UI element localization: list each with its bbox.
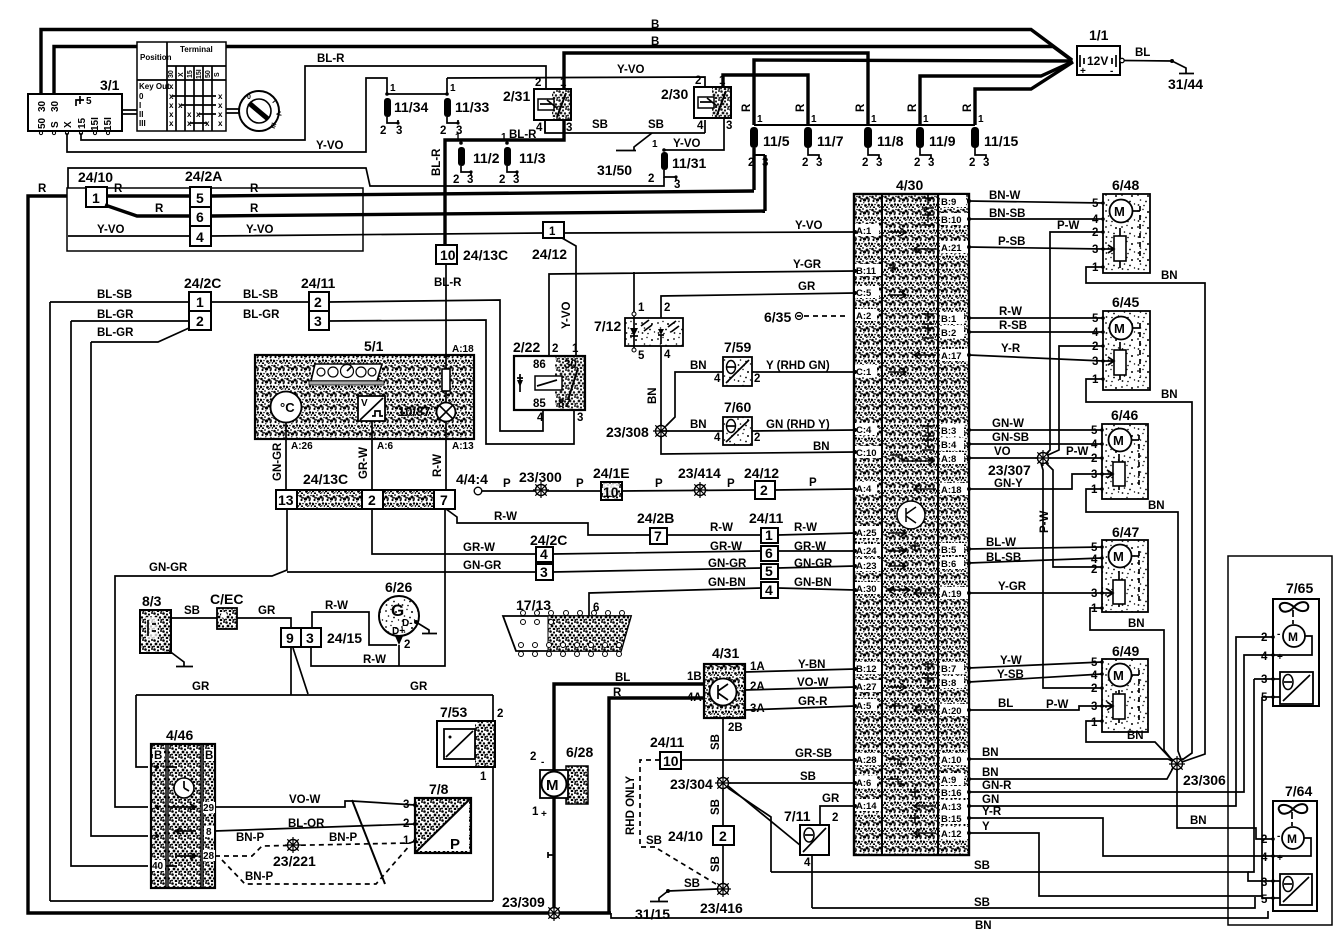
svg-text:VO-W: VO-W xyxy=(797,677,828,689)
svg-text:R: R xyxy=(38,183,47,195)
wire GR-SB 24/11-10 to strip A:28 xyxy=(681,759,855,761)
wire BL-GR row to relay 2/22 pin3 loop xyxy=(329,320,574,444)
svg-text:31/44: 31/44 xyxy=(1168,76,1203,92)
fuse 11/15 xyxy=(962,103,1018,169)
svg-text:M: M xyxy=(1113,433,1124,448)
fuse 11/33 xyxy=(440,83,489,137)
svg-text:23/416: 23/416 xyxy=(700,900,743,916)
svg-text:4: 4 xyxy=(1091,670,1098,682)
wire BN 7/12 pin4 to 23/308 xyxy=(660,346,662,425)
svg-text:2: 2 xyxy=(1261,632,1267,644)
ignition switch 3/1 xyxy=(28,77,122,135)
svg-text:P: P xyxy=(450,836,460,853)
connector 24/12 pin 1 xyxy=(532,222,567,262)
svg-text:15I: 15I xyxy=(103,117,114,131)
svg-text:M: M xyxy=(1113,549,1124,564)
svg-text:GN-GR: GN-GR xyxy=(794,558,833,570)
svg-text:6/45: 6/45 xyxy=(1112,294,1139,310)
svg-text:23/306: 23/306 xyxy=(1183,772,1226,788)
svg-text:I: I xyxy=(139,101,141,110)
wire GR 7/11 pin2 to strip A:14 xyxy=(820,806,855,825)
svg-text:x: x xyxy=(218,110,223,119)
svg-text:2: 2 xyxy=(1261,834,1267,846)
svg-text:GR: GR xyxy=(410,681,428,693)
wire GR-R 4/31 3A to strip A:5 xyxy=(745,706,855,710)
svg-text:4: 4 xyxy=(1261,852,1268,864)
wire relay 2/31 pin4 stub xyxy=(544,120,546,133)
svg-text:3: 3 xyxy=(674,179,680,191)
svg-text:1: 1 xyxy=(480,771,487,783)
svg-text:1/1: 1/1 xyxy=(1089,27,1109,43)
wire Y-VO 11/33 to relay 2/30 pin2 xyxy=(447,77,705,87)
wire SB 8/3 to C/EC xyxy=(171,617,217,619)
svg-text:85: 85 xyxy=(533,398,546,410)
svg-text:24/10: 24/10 xyxy=(78,169,113,185)
ground 31/15 xyxy=(635,889,670,922)
wire 7/65 pin5 down to 7/64 pin5 node xyxy=(1261,697,1263,896)
svg-text:1: 1 xyxy=(1092,374,1099,386)
RHD ONLY dashed box xyxy=(625,760,716,884)
svg-text:3: 3 xyxy=(306,630,314,646)
wire GN-W B:3 to 6/46 pin5 xyxy=(969,429,1102,431)
svg-text:0: 0 xyxy=(247,94,251,101)
svg-text:C:1: C:1 xyxy=(856,367,872,378)
svg-text:BN: BN xyxy=(982,767,999,779)
svg-text:BL-SB: BL-SB xyxy=(243,289,278,301)
svg-text:3: 3 xyxy=(1261,674,1267,686)
svg-text:2: 2 xyxy=(314,294,322,310)
svg-text:10: 10 xyxy=(440,247,456,263)
svg-text:3/1: 3/1 xyxy=(100,77,120,93)
svg-text:B:4: B:4 xyxy=(941,440,957,451)
svg-text:Y-VO: Y-VO xyxy=(795,220,823,232)
svg-text:30: 30 xyxy=(168,70,175,78)
svg-text:1: 1 xyxy=(501,132,507,143)
svg-text:3: 3 xyxy=(983,157,989,169)
svg-text:GR-W: GR-W xyxy=(463,542,495,554)
svg-text:V: V xyxy=(361,398,368,409)
wire R row2 to fuse 11/5 pin3 xyxy=(211,211,765,216)
svg-text:GR-R: GR-R xyxy=(798,696,828,708)
wire SB relay coils to ground xyxy=(545,120,705,133)
svg-text:2/31: 2/31 xyxy=(503,88,530,104)
svg-text:R-W: R-W xyxy=(432,454,444,477)
wire BN bottom row xyxy=(611,911,1268,918)
svg-text:R: R xyxy=(155,203,164,215)
svg-text:BL-GR: BL-GR xyxy=(97,327,134,339)
diode box 7/12 xyxy=(594,302,683,362)
svg-text:15: 15 xyxy=(77,117,88,129)
svg-text:11/3: 11/3 xyxy=(519,150,546,166)
svg-text:BL: BL xyxy=(1135,47,1150,59)
fuse 11/8 xyxy=(855,103,904,169)
svg-text:2: 2 xyxy=(368,492,376,508)
svg-text:B:8: B:8 xyxy=(941,678,956,689)
svg-text:R: R xyxy=(962,103,974,112)
svg-text:A:18: A:18 xyxy=(941,485,962,496)
wire fuse 11/5 feed to battery xyxy=(754,60,1072,125)
svg-text:°C: °C xyxy=(280,400,295,415)
wire 7/11 pin4 down to SB row xyxy=(811,855,813,908)
junction 23/416 xyxy=(700,881,743,916)
svg-text:SB: SB xyxy=(710,734,722,750)
svg-text:A:21: A:21 xyxy=(941,243,962,254)
svg-text:3: 3 xyxy=(467,174,473,186)
connector 24/11 pin 1 xyxy=(749,510,783,543)
svg-text:M: M xyxy=(1114,204,1125,219)
svg-text:GR-SB: GR-SB xyxy=(795,748,832,760)
svg-text:3: 3 xyxy=(396,125,402,137)
svg-text:3: 3 xyxy=(540,564,548,580)
svg-text:A:27: A:27 xyxy=(856,682,877,693)
connector 24/13C pin 10 xyxy=(436,245,508,264)
connector 24/15 pins 9 3 xyxy=(281,628,362,647)
wire GR-W 5/1 to 24/13C-2 xyxy=(371,439,373,490)
svg-text:Y: Y xyxy=(982,821,990,833)
svg-text:3: 3 xyxy=(726,120,732,132)
wire 7/12 pin1 to Y-GR row xyxy=(633,272,635,312)
svg-text:GN-GR: GN-GR xyxy=(149,562,188,574)
connector group box 24/10-24/2A xyxy=(67,188,363,251)
svg-text:BL-R: BL-R xyxy=(317,53,345,65)
svg-text:P: P xyxy=(576,478,584,490)
svg-text:6: 6 xyxy=(765,545,773,561)
svg-text:5: 5 xyxy=(638,350,645,362)
svg-text:BL-GR: BL-GR xyxy=(243,309,280,321)
svg-text:4: 4 xyxy=(1261,651,1268,663)
svg-text:4/4:4: 4/4:4 xyxy=(456,471,488,487)
svg-text:15I: 15I xyxy=(196,69,203,79)
svg-text:24/13C: 24/13C xyxy=(463,247,508,263)
svg-text:10: 10 xyxy=(603,484,619,500)
unit 7/8 xyxy=(403,781,471,853)
svg-text:1: 1 xyxy=(811,114,817,125)
svg-text:1: 1 xyxy=(978,114,984,125)
unit C/EC xyxy=(210,591,243,629)
wire BL-R ignition 15 to relay 2/31 pin2 xyxy=(81,66,546,140)
wire BL-SB left vertical to bottom xyxy=(49,302,51,901)
svg-text:1: 1 xyxy=(450,83,456,94)
connector 24/2C pins 1 2 xyxy=(184,275,221,330)
wire GN-R B:16 to 7/65 pin4 xyxy=(969,655,1273,792)
fuse 11/31 xyxy=(648,139,706,191)
wire fuse 11/5 pins23 thick to 24/2A xyxy=(754,148,765,211)
svg-text:R-W: R-W xyxy=(325,600,348,612)
wire BN-P dashed 4/46-28 to 7/8 pin1 xyxy=(215,841,415,856)
wire P-W 23/307 to 6/46 pin2 xyxy=(1049,457,1102,459)
terminal table 3/1 xyxy=(137,42,226,131)
wire BN 6/48 pin1 loop down xyxy=(1086,267,1205,762)
connector 24/10 pin 2 xyxy=(668,826,734,845)
svg-text:B: B xyxy=(651,19,659,31)
svg-text:Y-GR: Y-GR xyxy=(998,581,1027,593)
svg-text:2B: 2B xyxy=(728,722,743,734)
svg-text:R-SB: R-SB xyxy=(999,320,1027,332)
svg-text:31/15: 31/15 xyxy=(635,906,670,922)
svg-text:SB: SB xyxy=(646,835,662,847)
svg-text:4: 4 xyxy=(1092,214,1099,226)
svg-text:4/46: 4/46 xyxy=(166,727,193,743)
connector 24/11 pin 5 xyxy=(761,564,778,579)
connector 24/1E pin 10 xyxy=(593,465,630,500)
svg-text:Y-W: Y-W xyxy=(1000,655,1022,667)
svg-text:GR-W: GR-W xyxy=(710,541,742,553)
wire BN A:9 to 23/306 xyxy=(969,768,1173,779)
svg-text:P-W: P-W xyxy=(1057,220,1080,232)
svg-text:4: 4 xyxy=(540,546,548,562)
connector 24/13C strip xyxy=(276,471,455,509)
wire BL-GR row left xyxy=(71,320,189,322)
junction 23/309 xyxy=(502,894,562,921)
svg-text:2: 2 xyxy=(1091,453,1097,465)
wire GN A:13 to 7/65 pin2 xyxy=(969,637,1273,806)
svg-text:7/59: 7/59 xyxy=(724,339,751,355)
wire 6/26 pin2 down to R-W loop xyxy=(398,645,400,666)
wire SB 23/304 diagonal to bottom SB row xyxy=(728,788,771,872)
svg-text:BL-SB: BL-SB xyxy=(97,289,132,301)
svg-text:GR-W: GR-W xyxy=(358,447,370,479)
svg-text:1: 1 xyxy=(572,343,579,355)
svg-text:2: 2 xyxy=(440,125,446,137)
wire BL-R 24/13C-10 to 5/1 A:18 xyxy=(445,264,447,356)
wire R-W B:1 to 6/45 pin5 xyxy=(969,317,1103,319)
svg-text:1: 1 xyxy=(532,806,539,818)
svg-text:+: + xyxy=(1277,652,1283,663)
control unit 4/30 strip xyxy=(854,177,969,855)
wire BL-SB row mid xyxy=(211,301,309,303)
svg-text:Y-VO: Y-VO xyxy=(246,224,274,236)
wire BN-P dashed lower branch xyxy=(222,845,410,884)
svg-text:M: M xyxy=(546,777,559,794)
svg-text:M: M xyxy=(1114,321,1125,336)
svg-text:2: 2 xyxy=(535,77,541,89)
wire R-W 5/1 to 24/13C-7 xyxy=(445,439,447,490)
node 6/35 xyxy=(764,309,803,325)
junction 23/307 xyxy=(988,450,1051,478)
wire SB 23/304 diagonal to 7/11 leg xyxy=(728,786,806,850)
svg-text:A:28: A:28 xyxy=(856,755,877,766)
svg-text:A:19: A:19 xyxy=(941,589,962,600)
svg-text:24/15: 24/15 xyxy=(327,630,362,646)
svg-text:2: 2 xyxy=(453,174,459,186)
svg-text:7/64: 7/64 xyxy=(1285,783,1312,799)
svg-text:5: 5 xyxy=(1091,425,1098,437)
svg-text:P: P xyxy=(655,478,663,490)
connector 24/11 pins 2 3 xyxy=(301,275,335,330)
svg-text:SB: SB xyxy=(592,119,608,131)
wire 7/65 pin3 stub xyxy=(1254,678,1273,680)
svg-text:23/414: 23/414 xyxy=(678,465,721,481)
svg-text:B: B xyxy=(205,750,213,762)
svg-text:Y-R: Y-R xyxy=(982,806,1002,818)
svg-text:GR: GR xyxy=(798,281,816,293)
svg-text:-: - xyxy=(541,757,544,768)
svg-text:6/35: 6/35 xyxy=(764,309,791,325)
svg-text:GN-W: GN-W xyxy=(992,418,1024,430)
wire BL-R down to 24/13C-10 xyxy=(445,140,450,245)
svg-text:40: 40 xyxy=(152,861,164,872)
svg-text:R: R xyxy=(114,183,123,195)
svg-text:A:17: A:17 xyxy=(941,351,962,362)
junction 23/300 xyxy=(519,469,562,498)
wire Y-VO row 24/2A-4 to 24/12 and strip A:1 xyxy=(211,232,855,236)
svg-text:6/49: 6/49 xyxy=(1112,643,1139,659)
svg-text:2: 2 xyxy=(664,302,670,314)
svg-text:23/221: 23/221 xyxy=(273,853,316,869)
battery 1/1 xyxy=(1077,27,1124,77)
svg-text:Y-GR: Y-GR xyxy=(793,259,822,271)
wire BN 23/308 to 7/59 xyxy=(666,372,723,426)
svg-text:SB: SB xyxy=(974,860,990,872)
ground 31/50 xyxy=(597,133,652,178)
svg-text:11/7: 11/7 xyxy=(817,133,844,149)
svg-text:1: 1 xyxy=(757,114,763,125)
svg-text:5: 5 xyxy=(1091,542,1098,554)
svg-text:x: x xyxy=(205,119,210,128)
wire 11/31 pin2 to Y-VO feed 24/2A xyxy=(68,168,664,236)
svg-text:VO-W: VO-W xyxy=(289,794,320,806)
svg-text:P-SB: P-SB xyxy=(998,236,1025,248)
wire R-SB B:2 to 6/45 pin4 xyxy=(969,331,1103,333)
fuse 11/9 xyxy=(907,103,956,169)
fan unit 7/64 xyxy=(1261,783,1317,911)
svg-text:+: + xyxy=(1277,853,1283,864)
svg-text:BL-OR: BL-OR xyxy=(288,818,325,830)
svg-text:GN-BN: GN-BN xyxy=(794,577,832,589)
wire BL-SB row left xyxy=(50,301,189,303)
svg-text:2: 2 xyxy=(404,639,410,651)
svg-text:Y-BN: Y-BN xyxy=(798,659,825,671)
svg-text:C:4: C:4 xyxy=(856,425,872,436)
svg-text:P: P xyxy=(809,477,817,489)
svg-text:A:20: A:20 xyxy=(941,706,962,717)
4/30 internal symbols xyxy=(888,195,936,837)
svg-text:BN: BN xyxy=(1161,270,1178,282)
wire SB row2 to 7/64 pin5 xyxy=(812,897,1255,908)
svg-text:2: 2 xyxy=(969,157,975,169)
wire bus B top xyxy=(41,30,1072,95)
svg-text:4: 4 xyxy=(536,122,543,134)
svg-text:R: R xyxy=(613,687,622,699)
wire Y-R B:15 to 7/64 pin4 xyxy=(969,818,1273,856)
wire BL 6/28 up to 4/31 1B xyxy=(554,684,704,771)
svg-text:30: 30 xyxy=(564,359,577,371)
wire BL A:20 to 6/49 pin3 xyxy=(969,706,1102,710)
svg-text:3: 3 xyxy=(1091,469,1097,481)
svg-text:6/47: 6/47 xyxy=(1112,524,1139,540)
svg-text:7/8: 7/8 xyxy=(429,781,449,797)
svg-text:Key Out: Key Out xyxy=(139,82,170,91)
svg-text:GN-GR: GN-GR xyxy=(708,558,747,570)
svg-text:10: 10 xyxy=(663,753,679,769)
svg-text:BN-P: BN-P xyxy=(329,832,357,844)
svg-text:BL-GR: BL-GR xyxy=(97,309,134,321)
svg-text:R: R xyxy=(795,103,807,112)
svg-text:7/53: 7/53 xyxy=(440,704,467,720)
connector small inline 6/28 xyxy=(548,852,554,858)
svg-text:2: 2 xyxy=(380,125,386,137)
svg-text:A:25: A:25 xyxy=(856,528,877,539)
junction 23/308 xyxy=(606,423,669,440)
svg-text:23/308: 23/308 xyxy=(606,424,649,440)
unit 4/46 xyxy=(151,727,215,888)
sensor 8/3 xyxy=(140,593,171,653)
svg-text:GN: GN xyxy=(982,794,999,806)
svg-text:GN (RHD Y): GN (RHD Y) xyxy=(766,419,830,431)
svg-text:B:5: B:5 xyxy=(941,545,957,556)
svg-text:6/28: 6/28 xyxy=(566,744,593,760)
svg-text:x: x xyxy=(169,101,174,110)
svg-text:4A: 4A xyxy=(687,692,702,704)
svg-text:1: 1 xyxy=(196,294,204,310)
svg-text:B:6: B:6 xyxy=(941,559,956,570)
svg-text:SB: SB xyxy=(184,605,200,617)
svg-text:Y-R: Y-R xyxy=(1001,343,1021,355)
svg-text:5: 5 xyxy=(196,190,204,206)
svg-text:2: 2 xyxy=(499,174,505,186)
wire P-SB A:21 to 6/48 pin3 xyxy=(969,247,1103,249)
wire P-W 6/45 pin2 to 23/307 xyxy=(1048,346,1103,455)
svg-text:BL-SB: BL-SB xyxy=(986,552,1021,564)
svg-text:BN: BN xyxy=(647,387,659,404)
wire relay2/30 pin1 feed to fuse 11/7 xyxy=(723,75,808,125)
svg-text:A:1: A:1 xyxy=(856,226,872,237)
svg-text:3: 3 xyxy=(577,412,583,424)
svg-text:6: 6 xyxy=(196,209,204,225)
svg-text:Y-VO: Y-VO xyxy=(561,301,573,329)
svg-text:x: x xyxy=(187,110,192,119)
svg-text:1: 1 xyxy=(871,114,877,125)
svg-text:12V: 12V xyxy=(1087,54,1108,68)
connector 17/13 xyxy=(503,597,631,657)
wire GN-GR 24/13C-13 down-left branch xyxy=(115,509,287,807)
wire BL battery output xyxy=(1124,60,1172,63)
svg-text:X: X xyxy=(63,121,74,128)
wire SB 24/10-2 to 23/416 xyxy=(722,845,724,883)
junction 23/414 xyxy=(678,465,721,498)
svg-text:7: 7 xyxy=(654,528,662,544)
svg-text:2: 2 xyxy=(530,751,536,763)
sensor 7/11 xyxy=(784,808,838,869)
wire GN-GR 5/1 to 24/13C-13 xyxy=(285,439,287,490)
svg-text:2: 2 xyxy=(719,828,727,844)
svg-text:BN: BN xyxy=(982,747,999,759)
4/30 left pin labels xyxy=(855,224,881,812)
svg-text:P-W: P-W xyxy=(1066,446,1089,458)
svg-text:24/10: 24/10 xyxy=(668,828,703,844)
svg-text:4: 4 xyxy=(196,229,204,245)
wire P-W 23/307 down to 6/47 pin2 xyxy=(1046,463,1102,567)
svg-text:23/309: 23/309 xyxy=(502,894,545,910)
svg-text:15I: 15I xyxy=(90,117,101,131)
wire R-W 24/15-3 to 6/26 D+ xyxy=(312,612,397,645)
svg-text:A:12: A:12 xyxy=(941,829,962,840)
wire 11/34 pin1 bus to 11/33 xyxy=(387,78,447,94)
connector 24/2C pin 4 xyxy=(530,532,567,562)
svg-text:1: 1 xyxy=(1091,603,1098,615)
wire BN-SB B:10 to 6/48 pin4 xyxy=(969,218,1103,220)
svg-text:3: 3 xyxy=(1091,701,1097,713)
connector 24/11 pin 4 xyxy=(761,582,778,598)
svg-text:x: x xyxy=(218,101,223,110)
svg-text:GR: GR xyxy=(192,681,210,693)
connector 24/12 pin 2 xyxy=(744,465,779,499)
svg-text:x: x xyxy=(169,110,174,119)
svg-text:R: R xyxy=(741,103,753,112)
svg-text:BL-R: BL-R xyxy=(434,277,462,289)
svg-text:1B: 1B xyxy=(687,671,702,683)
svg-text:II: II xyxy=(139,110,143,119)
